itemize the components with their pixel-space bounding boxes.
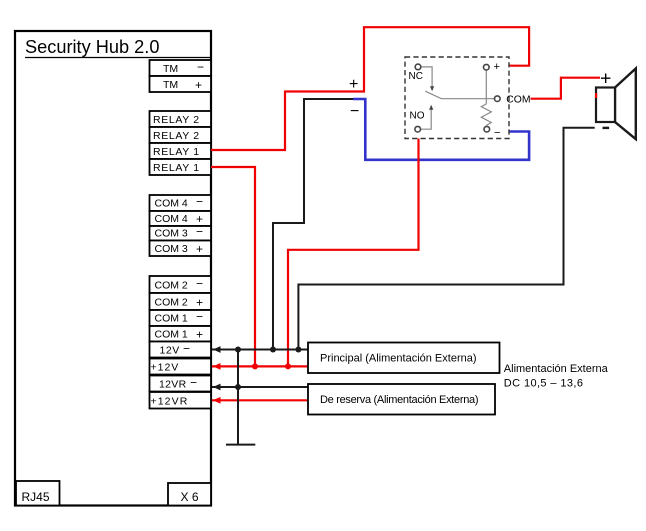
svg-text:De reserva (Alimentación Exter: De reserva (Alimentación Externa) bbox=[320, 394, 478, 406]
svg-text:+12V: +12V bbox=[151, 362, 180, 374]
svg-text:Principal (Alimentación Extern: Principal (Alimentación Externa) bbox=[320, 353, 477, 365]
svg-text:−: − bbox=[183, 342, 190, 356]
svg-text:NC: NC bbox=[409, 71, 423, 82]
svg-text:COM 4: COM 4 bbox=[155, 213, 188, 225]
svg-text:−: − bbox=[190, 376, 197, 390]
svg-text:+12VR: +12VR bbox=[151, 396, 189, 408]
svg-text:COM: COM bbox=[506, 95, 530, 106]
svg-text:−: − bbox=[494, 127, 500, 139]
svg-text:RELAY 2: RELAY 2 bbox=[153, 130, 200, 142]
svg-text:+: + bbox=[600, 68, 611, 90]
svg-text:RELAY 2: RELAY 2 bbox=[153, 114, 200, 126]
svg-text:COM 3: COM 3 bbox=[155, 228, 188, 240]
svg-text:−: − bbox=[196, 277, 203, 291]
svg-text:RELAY 1: RELAY 1 bbox=[153, 146, 200, 158]
svg-text:TM: TM bbox=[163, 63, 178, 75]
svg-text:COM 1: COM 1 bbox=[155, 313, 188, 325]
svg-text:+: + bbox=[196, 242, 203, 256]
svg-text:X 6: X 6 bbox=[181, 490, 199, 504]
svg-text:−: − bbox=[196, 195, 203, 209]
svg-text:Security Hub 2.0: Security Hub 2.0 bbox=[25, 37, 159, 57]
svg-text:COM 2: COM 2 bbox=[155, 280, 188, 292]
svg-text:+: + bbox=[494, 61, 500, 73]
svg-text:COM 4: COM 4 bbox=[155, 198, 188, 210]
svg-text:−: − bbox=[350, 103, 359, 120]
svg-text:NO: NO bbox=[410, 111, 425, 122]
svg-text:−: − bbox=[197, 60, 204, 74]
svg-text:+: + bbox=[349, 76, 358, 93]
svg-text:COM 1: COM 1 bbox=[155, 329, 188, 341]
svg-text:COM 3: COM 3 bbox=[155, 243, 188, 255]
svg-text:TM: TM bbox=[163, 79, 178, 91]
svg-text:RJ45: RJ45 bbox=[22, 490, 50, 504]
svg-text:DC 10,5 – 13,6: DC 10,5 – 13,6 bbox=[504, 378, 584, 390]
svg-text:RELAY 1: RELAY 1 bbox=[153, 162, 200, 174]
svg-text:12V: 12V bbox=[160, 345, 180, 357]
svg-text:+: + bbox=[195, 78, 202, 92]
svg-text:Alimentación Externa: Alimentación Externa bbox=[504, 363, 609, 375]
svg-text:COM 2: COM 2 bbox=[155, 297, 188, 309]
svg-text:+: + bbox=[196, 296, 203, 310]
svg-text:12VR: 12VR bbox=[159, 379, 187, 391]
svg-text:+: + bbox=[196, 328, 203, 342]
svg-text:−: − bbox=[196, 310, 203, 324]
svg-text:−: − bbox=[196, 225, 203, 239]
